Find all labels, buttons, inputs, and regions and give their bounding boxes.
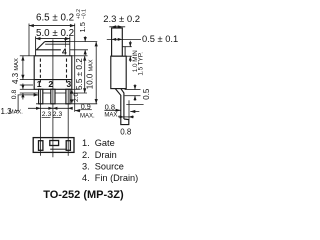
pin list bbox=[82, 138, 138, 183]
svg-text:2: 2 bbox=[48, 79, 53, 89]
side 1.0/1.5 shafts bbox=[129, 41, 131, 47]
5.5 arrows bbox=[83, 56, 86, 61]
side body bbox=[111, 56, 126, 88]
seating line bbox=[20, 92, 87, 94]
side foot ext bbox=[128, 100, 130, 119]
6.5 arrows bbox=[29, 24, 34, 27]
fin line bbox=[36, 49, 61, 51]
0.9 arrow bbox=[75, 109, 80, 112]
ext below leads bbox=[40, 89, 42, 156]
svg-text:1. Gate: 1. Gate bbox=[82, 138, 115, 148]
outer ref line right bbox=[74, 24, 76, 112]
2.3 underlines bbox=[42, 117, 51, 119]
side lead outer bbox=[115, 89, 121, 121]
svg-text:4. Fin (Drain): 4. Fin (Drain) bbox=[82, 173, 138, 183]
foot 0.8 arrows bbox=[120, 115, 124, 118]
fin chamfer bbox=[36, 42, 45, 51]
svg-text:0.5 ± 0.1: 0.5 ± 0.1 bbox=[142, 34, 178, 44]
rotated dim texts bbox=[11, 9, 151, 102]
internal line A bbox=[34, 79, 72, 81]
4.3 arrows bbox=[21, 56, 24, 61]
side 1.0/1.5 arrows bbox=[129, 42, 132, 46]
2.3/2.3 arrows bbox=[36, 107, 41, 110]
dim 0.8 shafts bbox=[22, 84, 24, 90]
side foot 0.8 dim line bbox=[118, 116, 134, 118]
1.3 leader bbox=[16, 95, 39, 111]
bottom view lead 2 bbox=[50, 141, 59, 146]
side 0.5 lead exts bbox=[125, 89, 141, 91]
svg-text:0.9: 0.9 bbox=[81, 102, 91, 111]
left ext: line A bbox=[20, 79, 34, 81]
svg-text:6.5 ± 0.2: 6.5 ± 0.2 bbox=[36, 13, 74, 24]
svg-text:MAX.: MAX. bbox=[9, 110, 23, 116]
side 0.5 tab arrows bbox=[112, 38, 117, 41]
dim 2.3/2.3 line bbox=[28, 107, 72, 109]
lead bottom ext bbox=[36, 103, 97, 105]
side ext y=104.6 bbox=[126, 104, 143, 106]
lead 1 bbox=[39, 89, 43, 104]
2.0 arrows bbox=[70, 89, 73, 93]
outer ref line left bbox=[28, 24, 30, 56]
lead 2 bbox=[51, 89, 55, 104]
side tab bbox=[112, 28, 123, 56]
tab right edge / 5.0 ext bbox=[69, 36, 71, 55]
left ext: body top bbox=[20, 55, 34, 57]
svg-text:1: 1 bbox=[37, 79, 42, 89]
1.5 arrows bbox=[84, 37, 87, 42]
5.0 arrows bbox=[36, 37, 41, 40]
right ext: body bottom bbox=[72, 88, 81, 90]
svg-text:4: 4 bbox=[62, 47, 67, 57]
svg-text:0.8: 0.8 bbox=[105, 102, 115, 111]
side 1.0/1.5 ext bottom bbox=[126, 55, 132, 57]
1.3 arrow bbox=[34, 93, 39, 96]
svg-text:TO-252 (MP-3Z): TO-252 (MP-3Z) bbox=[43, 189, 124, 201]
svg-text:0.5: 0.5 bbox=[142, 88, 151, 100]
left ext: body bottom bbox=[20, 88, 34, 90]
svg-text:2.3: 2.3 bbox=[53, 111, 63, 118]
svg-text:3. Source: 3. Source bbox=[82, 162, 124, 172]
side dim 2.3 line bbox=[109, 26, 125, 28]
side 0.5 leader bbox=[107, 38, 141, 40]
svg-text:2. Drain: 2. Drain bbox=[82, 150, 117, 160]
svg-text:0.8: 0.8 bbox=[11, 90, 18, 100]
dim 5.0 line bbox=[36, 38, 70, 40]
dim 6.5 line bbox=[29, 25, 75, 27]
svg-text:5.5 ± 0.2: 5.5 ± 0.2 bbox=[75, 58, 84, 90]
side lead inner bbox=[121, 89, 124, 119]
side fin step bbox=[122, 47, 125, 57]
pin4 leader shaft bbox=[64, 42, 66, 48]
side 111.5 arrow bbox=[130, 110, 135, 113]
side 2.3 arrows bbox=[112, 25, 117, 28]
center line bbox=[52, 40, 54, 158]
right ext: body top bbox=[72, 55, 88, 57]
bottom view inner line bbox=[50, 148, 66, 150]
dim 2.0 line bbox=[71, 89, 73, 104]
0.8 arrows bbox=[21, 85, 24, 89]
side 0.5 lead arrows bbox=[134, 85, 137, 89]
bottom view lead 1 bbox=[39, 141, 43, 151]
svg-text:2.0: 2.0 bbox=[73, 93, 80, 102]
svg-text:5.0 ± 0.2: 5.0 ± 0.2 bbox=[36, 28, 74, 39]
side 0.8 MAX leader bbox=[104, 109, 120, 111]
fin notch line bbox=[45, 43, 70, 45]
side foot bbox=[121, 119, 129, 125]
svg-text:1.5: 1.5 bbox=[78, 22, 87, 32]
10.0 arrows bbox=[95, 42, 98, 47]
side leader y=111.5 bbox=[130, 111, 139, 113]
0.9 underline bbox=[80, 109, 92, 111]
svg-text:MAX.: MAX. bbox=[104, 112, 119, 118]
svg-text:1.5 TYP.: 1.5 TYP. bbox=[138, 52, 145, 76]
pin4 leader arrow bbox=[64, 39, 67, 42]
dashed lead projection 1 bbox=[39, 59, 41, 83]
svg-text:−0.1: −0.1 bbox=[82, 9, 88, 19]
svg-text:2.3 ± 0.2: 2.3 ± 0.2 bbox=[103, 14, 140, 25]
svg-text:3: 3 bbox=[67, 79, 72, 89]
fin line ext right bbox=[70, 49, 88, 51]
left ext: mid bbox=[20, 84, 33, 86]
tab top ext right bbox=[70, 41, 97, 43]
0.9 leader bbox=[75, 110, 80, 112]
dim 1.5 shafts bbox=[84, 36, 86, 41]
side 1.0/1.5 ext top bbox=[125, 46, 132, 48]
bottom view outer rect bbox=[33, 138, 74, 153]
arrowheads bbox=[21, 24, 136, 118]
svg-text:MAX.: MAX. bbox=[80, 113, 95, 119]
dim 5.5 line bbox=[84, 56, 86, 93]
front view body bbox=[34, 56, 72, 90]
lead 3 bbox=[66, 89, 70, 104]
fin tab top edge bbox=[45, 41, 70, 43]
side 0.8 MAX arrow bbox=[116, 109, 121, 112]
svg-text:2.3: 2.3 bbox=[42, 111, 52, 118]
side 0.5 shafts bbox=[134, 84, 136, 89]
dim 10.0 line bbox=[95, 42, 97, 104]
bottom view lead 3 bbox=[66, 141, 70, 151]
dashed lead projection 3 bbox=[66, 59, 68, 83]
tab left edge / 5.0 ext bbox=[35, 36, 37, 55]
dim 4.3 line bbox=[22, 56, 24, 80]
svg-text:0.8: 0.8 bbox=[120, 127, 132, 136]
